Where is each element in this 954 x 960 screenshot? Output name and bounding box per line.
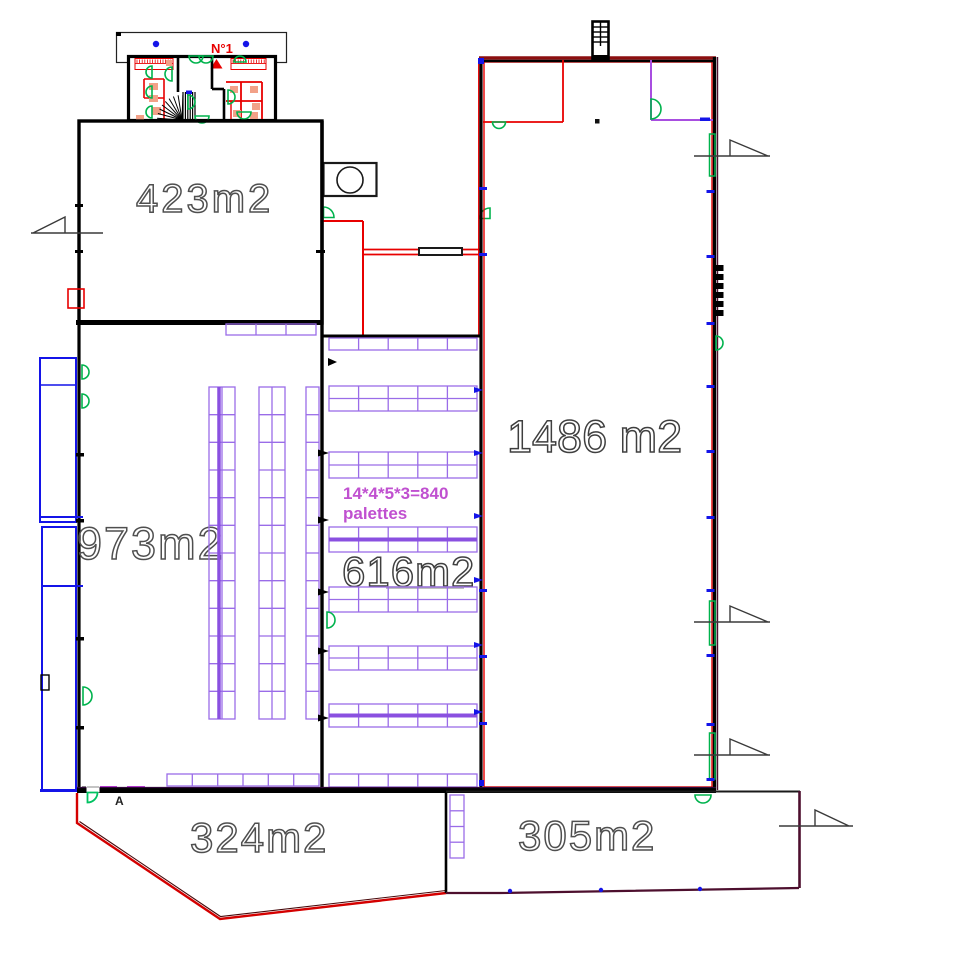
616 top wall	[322, 335, 482, 338]
616 rack row F	[329, 646, 477, 670]
1486 red partition	[562, 60, 564, 122]
1486 right wall	[713, 57, 716, 790]
616 arrow marker	[328, 358, 337, 366]
office block outer wall	[129, 57, 276, 121]
office corridor wall right lower	[223, 89, 226, 120]
1486 purple partition door arc	[651, 99, 661, 119]
loading dock blue outline	[40, 358, 76, 522]
svg-text:324m2: 324m2	[190, 814, 328, 861]
973 rack column 3	[306, 387, 319, 719]
flag symbol right wall 1	[694, 140, 770, 156]
corridor red double line upper	[363, 249, 482, 251]
flag symbol 305 east	[779, 810, 853, 826]
corridor red wall top	[322, 220, 363, 222]
423 room bottom wall thick	[76, 320, 323, 325]
right wall green door 1	[710, 134, 716, 176]
973/616 divider wall	[320, 121, 323, 790]
west wall green arc 1	[82, 365, 89, 379]
324 inner dark line	[80, 822, 447, 917]
office band blue dot 2	[243, 41, 249, 47]
1486 red partition door arc	[493, 122, 506, 129]
svg-text:1486 m2: 1486 m2	[507, 411, 682, 462]
west wall black ticks	[76, 453, 84, 457]
616 rack row H	[329, 774, 477, 787]
main west wall	[77, 323, 80, 793]
1486 top wall black	[479, 60, 716, 62]
west wall green arc 3	[83, 687, 92, 705]
corridor green arc left	[324, 207, 335, 218]
305 right wall	[798, 791, 801, 888]
office radiator right	[231, 59, 266, 70]
616 green arc	[327, 612, 335, 628]
main bottom wall	[77, 788, 716, 793]
973 bottom purple dashes	[100, 786, 117, 789]
svg-text:14*4*5*3=840: 14*4*5*3=840	[343, 484, 448, 503]
423 left wall tick 1	[75, 204, 83, 207]
right wall green door 3	[710, 733, 716, 779]
1486 bottom corner blue mark	[479, 780, 484, 786]
flag symbol right wall 2	[694, 606, 770, 622]
office band blue dot 1	[153, 41, 159, 47]
973 rack column 2	[259, 387, 285, 719]
office red partition right	[226, 81, 262, 83]
616 right side blue arrows	[474, 387, 483, 393]
flag symbol right wall 3	[694, 739, 770, 755]
616 rack row G	[329, 704, 477, 727]
west wall green arc 2	[82, 394, 89, 408]
324/305 divider	[445, 793, 448, 893]
423 room walls	[79, 121, 322, 323]
svg-text:305m2: 305m2	[518, 812, 656, 859]
divider door arrows	[318, 450, 329, 457]
616 rack row B	[329, 386, 477, 411]
423 right wall door tick	[316, 250, 325, 253]
973 top rack row	[226, 324, 316, 335]
1486 purple partition	[650, 60, 652, 120]
office radiator left	[135, 59, 173, 70]
dock black mark	[41, 675, 49, 690]
616 rack row A	[329, 338, 477, 350]
office door arcs	[189, 56, 203, 63]
616 rack row E	[329, 587, 477, 612]
423 left wall red hatch door	[68, 289, 84, 308]
973 rack column 1	[209, 387, 235, 719]
roof ladder	[593, 22, 609, 60]
corridor green arc right	[480, 208, 491, 219]
west wall tick at dock divider	[76, 519, 84, 523]
office fixtures	[149, 83, 158, 90]
left wall of 1486 blue ticks	[479, 187, 487, 190]
324 door opening	[87, 786, 100, 793]
right wall outside green arc	[716, 336, 723, 350]
office outer band	[117, 33, 287, 63]
svg-text:973m2: 973m2	[77, 518, 225, 569]
1486 centre column dot	[595, 119, 600, 124]
fan box	[324, 163, 377, 196]
svg-text:palettes: palettes	[343, 504, 407, 523]
423 left wall tick 2	[75, 250, 83, 253]
office corridor wall left	[177, 57, 180, 92]
973 bottom rack row	[167, 774, 319, 786]
svg-text:423m2: 423m2	[136, 177, 273, 221]
office staircase	[157, 118, 182, 120]
305 purple strip rack	[450, 795, 464, 858]
svg-text:N°1: N°1	[211, 41, 233, 56]
right wall green door 2	[710, 601, 716, 645]
office corridor jog	[212, 88, 224, 91]
corridor red wall vertical	[362, 221, 364, 336]
616 rack row C	[329, 452, 477, 478]
324 red outline	[77, 793, 446, 919]
1486 purple partition blue tick	[700, 118, 710, 122]
1486 top wall red	[479, 56, 716, 59]
office red partition left	[144, 78, 164, 80]
right wall blue ticks	[707, 190, 715, 193]
bottom wall dark red top line	[77, 787, 716, 789]
office red triangle	[211, 59, 223, 69]
office corridor wall right upper	[211, 57, 214, 89]
1486 red inner outline	[484, 62, 712, 787]
svg-text:A: A	[115, 794, 124, 808]
305 bottom wall	[446, 888, 799, 893]
616 rack row D	[329, 527, 477, 552]
right wall black hatch	[716, 265, 724, 271]
1486 left wall	[479, 58, 482, 790]
305 bottom blue dots	[508, 889, 512, 893]
1486 top-left blue tick	[478, 58, 484, 64]
305 green door arc	[695, 795, 711, 803]
corridor door slab	[419, 248, 462, 255]
corridor red double line lower	[363, 254, 482, 256]
flag symbol west wall	[31, 217, 103, 233]
305 top wall	[446, 791, 800, 793]
1486 left wall outer red	[478, 59, 480, 336]
